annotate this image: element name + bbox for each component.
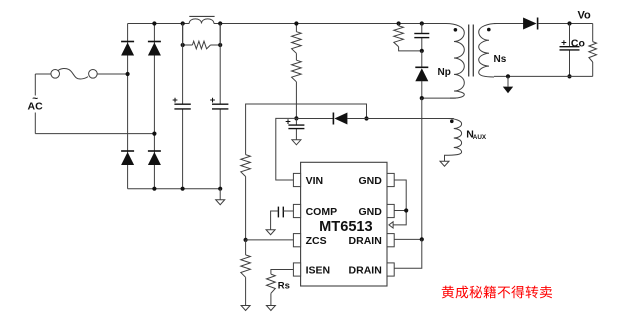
Np label [438, 67, 451, 78]
inductor L1 [189, 16, 214, 23]
capacitor C1 (bulk) [172, 24, 191, 189]
capacitor C6 (COMP) [271, 207, 294, 230]
Co label [571, 38, 585, 50]
transformer secondary winding Ns [479, 24, 497, 78]
node switch junction [420, 96, 424, 100]
diode D3 (bridge lower-left) [121, 151, 134, 165]
node rail-C2 [218, 187, 222, 191]
transformer core [469, 25, 474, 77]
diode D6 (clamp) [415, 51, 428, 98]
watermark red text [442, 286, 552, 299]
svg-text:COMP: COMP [306, 206, 338, 218]
U1 pin label ZCS [306, 235, 327, 247]
node VIN junction [294, 116, 298, 120]
wire ZCS pin [246, 239, 294, 241]
resistor R6 (snubber) [394, 24, 422, 51]
wire bridge left column [127, 24, 129, 189]
svg-text:Np: Np [438, 67, 451, 78]
Ns label [494, 54, 507, 65]
wire drain vertical [421, 98, 423, 239]
ground COMP [266, 230, 275, 235]
node bus junction snubber-C [420, 21, 424, 25]
wire output bottom [494, 75, 593, 77]
svg-text:GND: GND [358, 175, 382, 187]
node drain junction [420, 237, 424, 241]
wire ISEN pin [271, 270, 294, 275]
wire output top [538, 23, 592, 25]
polarity dot Ns [487, 28, 491, 32]
op-amp U1 MT6513 body [301, 162, 387, 286]
svg-text:Vo: Vo [578, 10, 592, 22]
AC source label [28, 93, 44, 112]
U1 left pin boxes [293, 173, 300, 276]
wire DRAIN pin 2 [394, 239, 422, 268]
U1 pin label GND 2 [358, 206, 382, 218]
svg-text:+: + [561, 38, 567, 49]
svg-text:Co: Co [571, 38, 585, 50]
U1 name MT6513 [319, 219, 373, 235]
capacitor C4 (snubber) [414, 24, 429, 51]
U1 pin label ISEN [306, 264, 331, 276]
capacitor C3 (VIN) [285, 117, 304, 140]
ground primary rail [216, 189, 225, 205]
NAUX label [466, 129, 487, 142]
node AC-top junction [126, 72, 130, 76]
node AC-bottom junction [152, 132, 156, 136]
svg-text:Ns: Ns [494, 54, 507, 65]
transformer aux winding NAUX [445, 119, 462, 162]
svg-text:ISEN: ISEN [306, 264, 331, 276]
svg-text:+: + [210, 95, 216, 106]
node bus junction right-column [152, 21, 156, 25]
svg-text:AUX: AUX [473, 134, 487, 141]
svg-text:DRAIN: DRAIN [349, 264, 382, 276]
svg-text:MT6513: MT6513 [319, 219, 373, 235]
svg-text:VIN: VIN [306, 175, 324, 187]
ground secondary [503, 76, 513, 93]
U1 right pin boxes [387, 173, 394, 276]
diode D2 (bridge upper-right) [148, 42, 161, 56]
svg-text:~: ~ [32, 93, 38, 104]
node bus junction startup [294, 21, 298, 25]
node aux divider tap [364, 116, 368, 120]
wire top bus middle [214, 23, 446, 25]
wire secondary top [494, 23, 524, 25]
resistor R5 (ZCS divider lower) [241, 240, 251, 306]
svg-text:DRAIN: DRAIN [349, 235, 382, 247]
wire aux line to winding [347, 118, 453, 120]
ground NAUX [440, 161, 449, 166]
wire ZCS top horizontal [246, 104, 367, 155]
polarity dot NAUX [450, 120, 454, 124]
diode D5 (aux rectifier) [333, 113, 347, 125]
wire primary bottom [422, 97, 456, 99]
Rs label [278, 280, 290, 291]
node Co bottom junction [567, 74, 571, 78]
node rail-right-column [152, 187, 156, 191]
svg-text:ZCS: ZCS [306, 235, 327, 247]
node GND loop junction [404, 208, 408, 212]
node secondary ground junction [506, 74, 510, 78]
wire bridge right column [153, 24, 155, 189]
capacitor C2 (bulk) [210, 24, 229, 189]
U1 pin label COMP [306, 206, 338, 218]
resistor Rs [267, 274, 276, 305]
capacitor C5 (Co) [560, 24, 580, 77]
resistor R3 (startup lower) [292, 53, 302, 118]
polarity dot Np [454, 28, 458, 32]
node Vo junction [567, 21, 571, 25]
wire bottom rail [128, 188, 221, 190]
resistor R7 (load) [589, 24, 597, 77]
U1 pin label GND 1 [358, 175, 382, 187]
transformer primary winding Np [446, 24, 464, 99]
wire AC bottom to bridge [35, 133, 154, 135]
svg-text:Rs: Rs [278, 280, 290, 291]
wire DRAIN pin 1 [394, 238, 422, 240]
node bus junction L1-left [181, 21, 185, 25]
node bus junction snubber-R [397, 21, 401, 25]
node bus junction L1-right [218, 21, 222, 25]
diode D7 (output rectifier) [523, 18, 538, 30]
node snubber bottom junction [420, 49, 424, 53]
svg-text:+: + [172, 95, 178, 106]
ground ZCS divider [241, 306, 250, 311]
U1 pin label DRAIN 1 [349, 235, 382, 247]
diode D4 (bridge lower-right) [148, 151, 161, 165]
fuse F1 [35, 68, 127, 79]
ground Rs [266, 306, 275, 311]
node ZCS junction [244, 238, 248, 242]
diode D1 (bridge upper-left) [121, 42, 134, 56]
ground IC (left-pointing arrow) [389, 222, 393, 228]
wire top bus left [128, 23, 190, 25]
ground C3 [292, 140, 301, 145]
resistor R2 (startup upper) [292, 24, 302, 54]
U1 pin label DRAIN 2 [349, 264, 382, 276]
svg-text:GND: GND [358, 206, 382, 218]
wire AC source left vertical upper [34, 74, 36, 96]
U1 pin label VIN [306, 175, 324, 187]
resistor R4 (ZCS divider upper) [241, 155, 251, 240]
wire GND pins loop [394, 180, 407, 225]
resistor R1 (damping across L1) [181, 24, 223, 49]
wire VIN-diode anode line [296, 118, 333, 120]
wire VIN pin [276, 118, 297, 180]
Vo label [578, 10, 592, 22]
wire AC source left vertical lower [34, 113, 36, 134]
node rail-C1 [181, 187, 185, 191]
